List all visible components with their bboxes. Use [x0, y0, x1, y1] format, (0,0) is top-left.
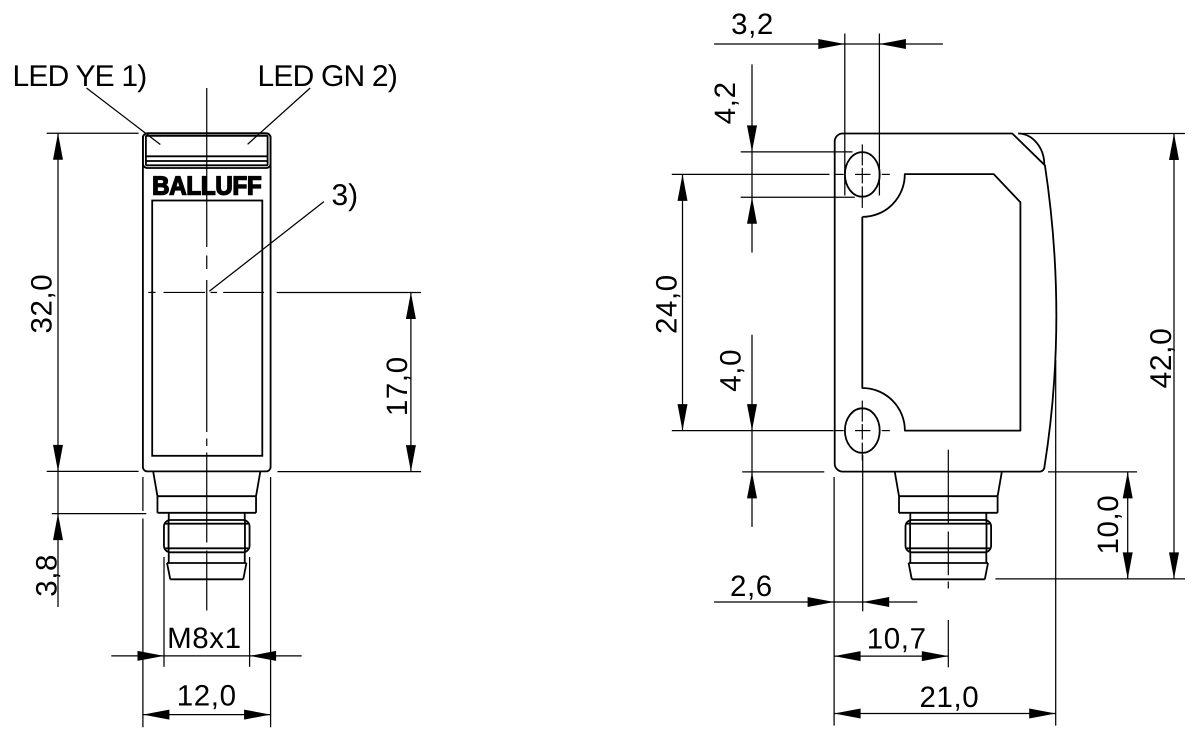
svg-text:3,8: 3,8: [31, 554, 64, 597]
svg-text:3): 3): [332, 179, 359, 212]
svg-text:32,0: 32,0: [26, 274, 59, 334]
svg-text:42,0: 42,0: [1145, 328, 1178, 389]
svg-text:4,0: 4,0: [715, 349, 748, 392]
svg-text:12,0: 12,0: [177, 680, 237, 713]
svg-text:LED YE 1): LED YE 1): [13, 60, 147, 93]
svg-text:M8x1: M8x1: [167, 622, 242, 655]
svg-text:21,0: 21,0: [919, 681, 979, 714]
svg-text:3,2: 3,2: [731, 8, 774, 41]
svg-text:17,0: 17,0: [381, 356, 414, 416]
svg-text:2,6: 2,6: [730, 570, 773, 603]
svg-text:10,7: 10,7: [867, 623, 927, 656]
svg-text:4,2: 4,2: [709, 81, 742, 124]
svg-text:24,0: 24,0: [650, 274, 683, 334]
svg-text:LED GN 2): LED GN 2): [258, 60, 398, 93]
svg-text:10,0: 10,0: [1092, 495, 1125, 555]
